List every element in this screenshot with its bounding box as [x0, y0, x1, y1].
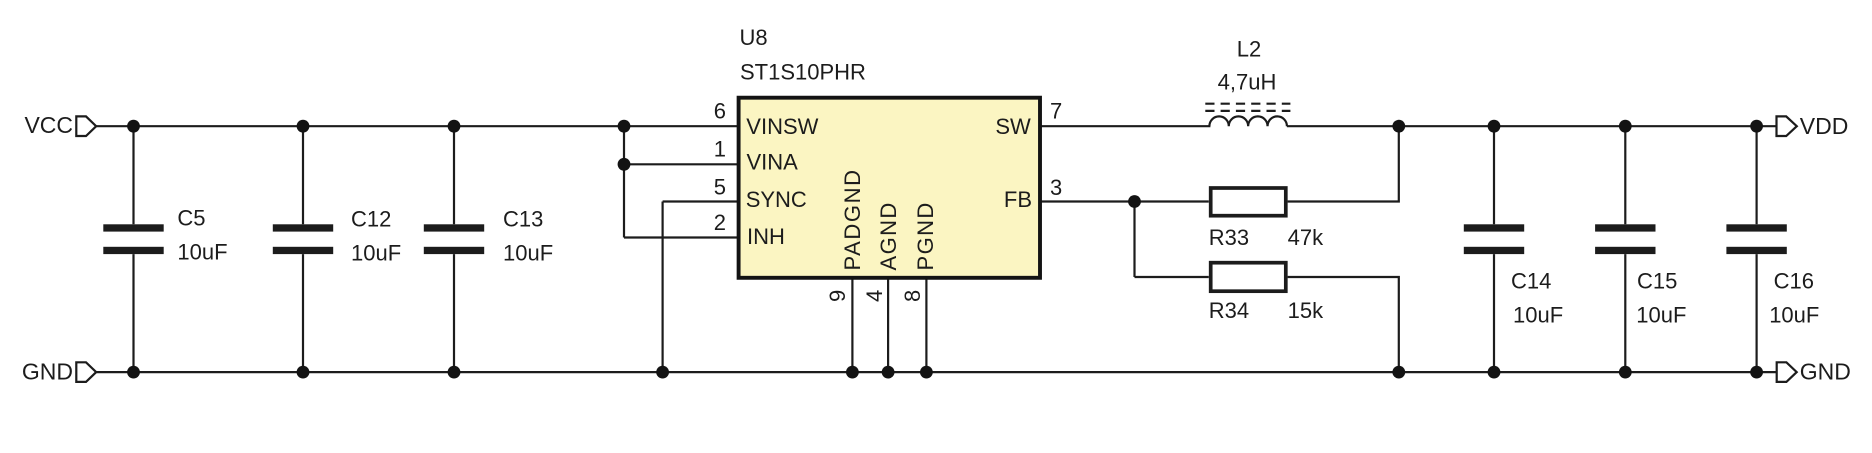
- svg-text:C5: C5: [177, 206, 205, 231]
- capacitor C12: [273, 126, 333, 372]
- wire inductor to VDD: [1287, 125, 1777, 127]
- wire INH: [624, 236, 739, 238]
- junction GND-pin4: [882, 366, 895, 379]
- wire pin9 PADGND: [851, 278, 853, 372]
- svg-text:AGND: AGND: [876, 201, 901, 270]
- junction VCC-C12: [297, 120, 310, 133]
- svg-text:ST1S10PHR: ST1S10PHR: [740, 60, 866, 85]
- wire FB: [1040, 200, 1209, 202]
- wire VINA: [624, 163, 739, 165]
- svg-text:8: 8: [900, 290, 925, 302]
- junction VDD-C14: [1488, 120, 1501, 133]
- junction GND-C15: [1619, 366, 1632, 379]
- junction VDD-R33: [1392, 120, 1405, 133]
- wire SYNC horizontal: [663, 200, 739, 202]
- svg-text:PADGND: PADGND: [840, 168, 865, 270]
- junction GND-pin8: [920, 366, 933, 379]
- capacitor C13: [424, 126, 484, 372]
- junction GND-C14: [1488, 366, 1501, 379]
- svg-text:47k: 47k: [1288, 225, 1324, 250]
- svg-text:SW: SW: [995, 114, 1031, 139]
- capacitor C5: [103, 126, 163, 372]
- junction FB node: [1128, 195, 1141, 208]
- junction GND-pin9: [846, 366, 859, 379]
- capacitor C15: [1595, 126, 1655, 372]
- wire pin8 PGND: [925, 278, 927, 372]
- port VDD: [1777, 113, 1849, 139]
- svg-text:3: 3: [1050, 175, 1062, 200]
- junction VDD-C15: [1619, 120, 1632, 133]
- wire R33 right: [1288, 126, 1399, 201]
- wire VCC node vertical: [623, 126, 625, 237]
- svg-text:5: 5: [714, 175, 726, 200]
- port GND right: [1777, 358, 1851, 384]
- resistor R34: [1211, 263, 1286, 292]
- svg-text:1: 1: [714, 137, 726, 162]
- wire pin4 AGND: [887, 278, 889, 372]
- svg-text:VCC: VCC: [24, 112, 73, 138]
- svg-text:SYNC: SYNC: [746, 187, 807, 212]
- svg-text:VINA: VINA: [747, 150, 799, 175]
- svg-text:R34: R34: [1209, 298, 1249, 323]
- svg-text:C13: C13: [503, 207, 543, 232]
- junction GND-C5: [127, 366, 140, 379]
- svg-text:U8: U8: [740, 25, 768, 50]
- svg-text:PGND: PGND: [913, 201, 938, 270]
- svg-text:9: 9: [825, 290, 850, 302]
- svg-text:FB: FB: [1004, 187, 1032, 212]
- svg-text:4,7uH: 4,7uH: [1218, 70, 1277, 95]
- junction GND-SYNC: [656, 366, 669, 379]
- svg-text:7: 7: [1050, 99, 1062, 124]
- wire GND rail: [96, 371, 1777, 373]
- svg-text:L2: L2: [1237, 37, 1261, 62]
- port GND left: [22, 358, 96, 384]
- svg-text:C16: C16: [1774, 268, 1814, 293]
- svg-text:GND: GND: [22, 358, 73, 384]
- junction GND-C13: [448, 366, 461, 379]
- svg-text:10uF: 10uF: [351, 241, 401, 266]
- wire SYNC to ground: [661, 202, 663, 373]
- junction GND-R34: [1392, 366, 1405, 379]
- port VCC: [24, 112, 96, 138]
- wire FB to R34 vertical: [1133, 202, 1135, 278]
- inductor L2: [1205, 104, 1290, 127]
- svg-text:VDD: VDD: [1800, 113, 1849, 139]
- IC U8 body: [739, 98, 1040, 278]
- junction VCC-C13: [448, 120, 461, 133]
- svg-text:10uF: 10uF: [1513, 302, 1563, 327]
- junction VCC node: [618, 120, 631, 133]
- svg-text:4: 4: [862, 290, 887, 302]
- junction VINA node: [618, 158, 631, 171]
- capacitor C16: [1726, 126, 1786, 372]
- svg-text:10uF: 10uF: [1769, 302, 1819, 327]
- wire R34 left: [1135, 276, 1209, 278]
- svg-text:GND: GND: [1800, 358, 1851, 384]
- svg-text:C14: C14: [1511, 268, 1551, 293]
- svg-text:10uF: 10uF: [177, 240, 227, 265]
- svg-text:2: 2: [714, 210, 726, 235]
- wire SW to inductor: [1040, 125, 1210, 127]
- svg-text:INH: INH: [747, 224, 785, 249]
- svg-text:R33: R33: [1209, 225, 1249, 250]
- svg-text:10uF: 10uF: [503, 241, 553, 266]
- wire R34 right: [1288, 277, 1399, 372]
- wire VCC rail: [96, 125, 738, 127]
- capacitor C14: [1464, 126, 1524, 372]
- junction VDD-C16: [1750, 120, 1763, 133]
- svg-text:15k: 15k: [1288, 298, 1324, 323]
- svg-text:C15: C15: [1637, 268, 1677, 293]
- svg-text:VINSW: VINSW: [746, 114, 818, 139]
- svg-text:6: 6: [714, 99, 726, 124]
- resistor R33: [1211, 188, 1286, 216]
- junction GND-C16: [1750, 366, 1763, 379]
- junction VCC-C5: [127, 120, 140, 133]
- junction GND-C12: [297, 366, 310, 379]
- svg-text:C12: C12: [351, 207, 391, 232]
- svg-text:10uF: 10uF: [1636, 302, 1686, 327]
